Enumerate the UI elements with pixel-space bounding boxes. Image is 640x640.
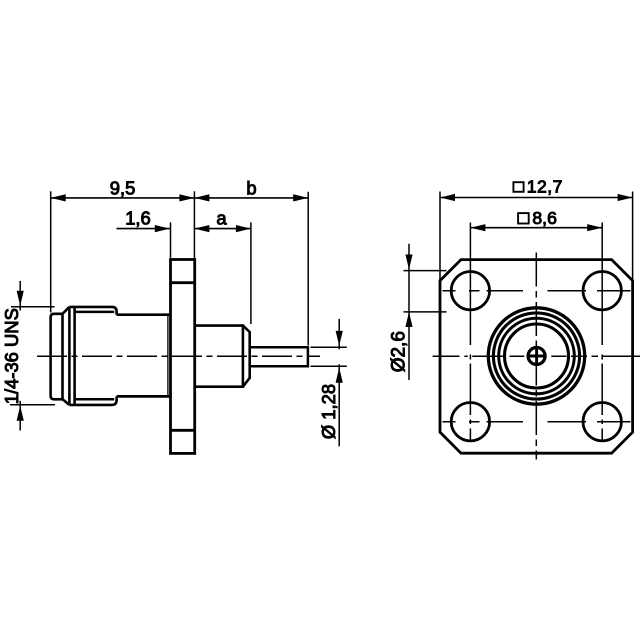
- centerline side view: [37, 355, 320, 357]
- svg-text:Ø 1,28: Ø 1,28: [318, 384, 339, 439]
- connector ring 2: [493, 313, 579, 399]
- nut front rim edge line 1: [68, 307, 71, 405]
- dim line 8,6: [470, 227, 602, 229]
- main vertical centerline front: [535, 253, 537, 460]
- arrow 9,5 left: [51, 194, 66, 201]
- hole diameter dim line: [408, 244, 410, 380]
- pin diameter ext line top: [311, 346, 347, 348]
- mounting hole top-right: [583, 272, 621, 310]
- center contact cross vertical: [535, 347, 538, 364]
- svg-text:1/4-36 UNS: 1/4-36 UNS: [1, 308, 22, 404]
- arrow b right: [293, 194, 308, 201]
- ext line 12,7 right: [632, 192, 634, 282]
- body barrel bottom: [117, 395, 170, 398]
- insulator bushing top: [195, 324, 243, 327]
- barrel end face thin line: [167, 316, 169, 395]
- connector ring outer (nut): [488, 308, 584, 404]
- arrow 12,7 right: [618, 194, 633, 201]
- pin arrow top (down): [336, 331, 343, 346]
- arrow b left: [194, 194, 209, 201]
- dim line 9,5: [51, 197, 195, 199]
- ext line 12,7 left: [439, 192, 441, 282]
- ext line left (9,5): [50, 191, 52, 312]
- hole centerline vertical right: [601, 223, 603, 441]
- hole centerline vertical left: [469, 223, 471, 441]
- dim line 12,7: [440, 197, 633, 199]
- ext line at flange right (9,5 / b): [193, 191, 195, 258]
- svg-text:a: a: [216, 208, 227, 229]
- hole dia arrow top (down): [405, 255, 412, 270]
- insulator bushing bottom: [195, 385, 243, 388]
- hole dia ext line bottom: [404, 311, 447, 313]
- mounting hole bottom-right: [583, 403, 621, 441]
- mounting hole top-left: [451, 272, 489, 310]
- hole centerline horizontal bottom: [443, 421, 631, 423]
- svg-text:8,6: 8,6: [532, 208, 557, 228]
- coupling nut outer outline top: [69, 307, 116, 315]
- arrow 8,6 right: [587, 224, 602, 231]
- connector ring 4 (insulator): [505, 324, 569, 388]
- thread ext line bottom: [10, 404, 55, 406]
- nut front rim edge line 2: [73, 307, 76, 405]
- flange inner line top: [171, 281, 195, 284]
- svg-text:b: b: [246, 177, 256, 198]
- label square 8,6: [518, 213, 529, 223]
- insulator end face: [242, 324, 245, 388]
- hole centerline horizontal top: [443, 290, 631, 292]
- ext line flange left (1,6): [170, 222, 172, 257]
- dim line b: [194, 197, 308, 199]
- hole dia arrow bottom (up): [405, 312, 412, 327]
- body barrel top: [117, 313, 170, 316]
- svg-text:9,5: 9,5: [110, 178, 136, 199]
- pin arrow bottom (up): [336, 368, 343, 383]
- flange inner line bottom: [171, 429, 195, 432]
- arrow 12,7 left: [440, 194, 455, 201]
- svg-text:12,7: 12,7: [527, 176, 563, 196]
- pin dim line upper: [338, 319, 340, 349]
- coupling nut knurl inner line bottom: [75, 398, 115, 401]
- arrow a right: [236, 225, 251, 232]
- chamfer bottom front: [63, 399, 70, 405]
- arrow 1,6: [155, 225, 170, 232]
- dim line 1,6 (outside left): [117, 228, 170, 230]
- thread dimension vertical line top: [19, 281, 21, 311]
- dim line a: [194, 228, 251, 230]
- chamfer top front: [63, 307, 70, 314]
- pin end face: [307, 346, 310, 367]
- thread arrow bottom (up): [17, 406, 24, 421]
- flange side view outline: [171, 260, 195, 454]
- arrow 8,6 left: [470, 224, 485, 231]
- arrow 9,5 right: [179, 194, 194, 201]
- contact pin top: [250, 346, 308, 349]
- contact pin bottom: [250, 365, 308, 368]
- label square 12,7: [513, 182, 523, 192]
- hole dia ext line top: [404, 270, 447, 272]
- connector front cap (coupling face): [51, 314, 63, 400]
- thread ext line top: [11, 306, 55, 308]
- center contact circle: [528, 348, 545, 365]
- ext line a right: [250, 222, 252, 324]
- center contact cross horizontal: [528, 355, 545, 358]
- main horizontal centerline front: [433, 355, 640, 357]
- svg-text:Ø2,6: Ø2,6: [388, 331, 409, 372]
- coupling nut knurl inner line top: [75, 311, 115, 314]
- connector ring 3: [499, 318, 575, 394]
- svg-text:1,6: 1,6: [125, 208, 151, 229]
- thread arrow top (down): [17, 291, 24, 306]
- insulator cap chamfered: [243, 326, 250, 387]
- flange plate octagon: [440, 260, 633, 454]
- coupling nut outer outline bottom: [69, 396, 116, 405]
- pin diameter ext line bottom: [311, 365, 347, 367]
- pin dim line lower: [338, 364, 340, 446]
- mounting hole bottom-left: [451, 403, 489, 441]
- ext line pin end (b): [307, 192, 309, 346]
- arrow a left: [194, 225, 209, 232]
- thread dimension vertical line bottom: [19, 401, 21, 431]
